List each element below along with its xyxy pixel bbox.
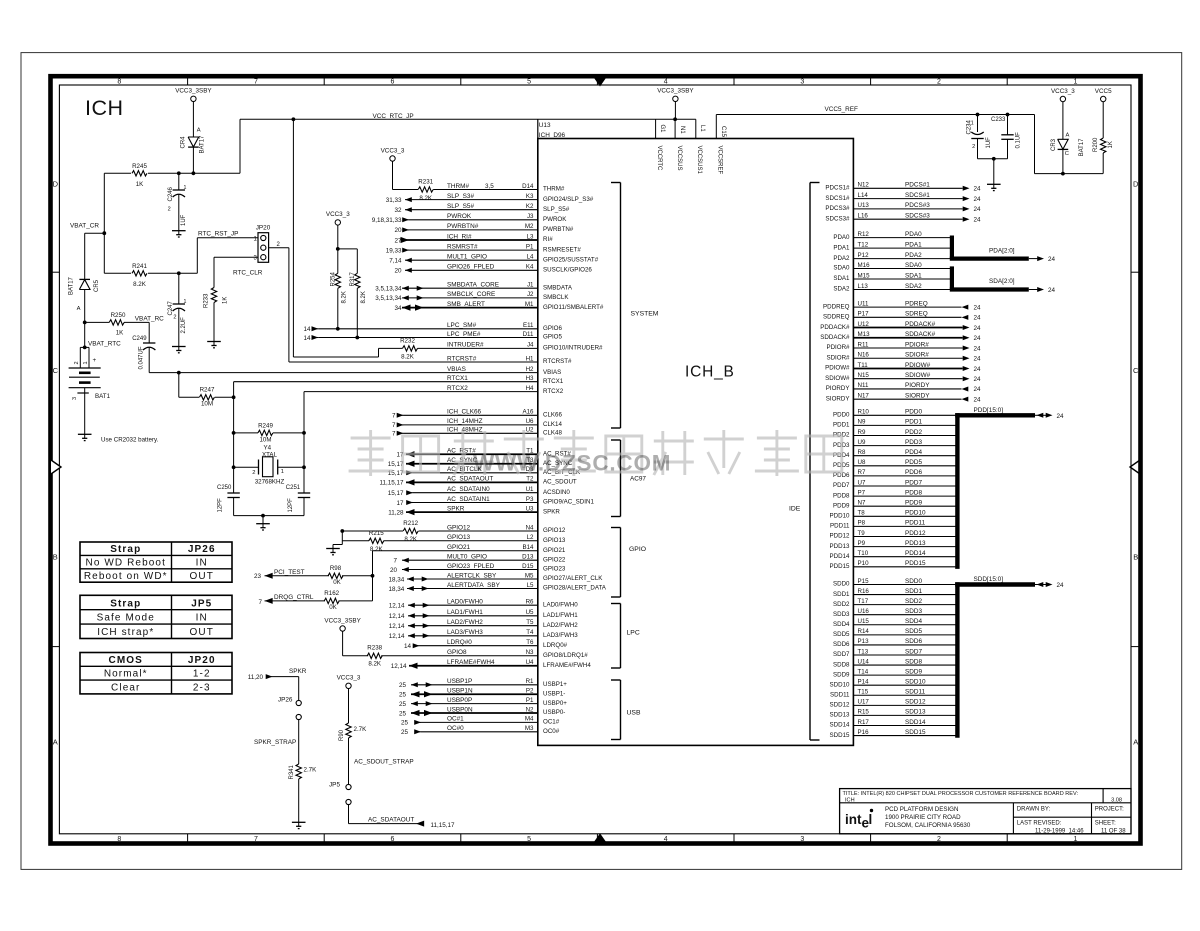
svg-text:PDD15: PDD15 bbox=[905, 560, 926, 567]
svg-text:SDD3: SDD3 bbox=[905, 608, 922, 615]
svg-text:RTC_RST_JP: RTC_RST_JP bbox=[198, 231, 238, 238]
svg-text:N1: N1 bbox=[679, 126, 685, 134]
svg-text:PWRBTN#: PWRBTN# bbox=[447, 223, 479, 230]
ground below C234 C233 bbox=[987, 183, 1001, 185]
svg-text:PDREQ: PDREQ bbox=[905, 300, 928, 307]
wire JP20 pin2 to RTCRST# bbox=[269, 247, 289, 249]
svg-text:JP5: JP5 bbox=[329, 781, 340, 788]
svg-text:PDD[15:0]: PDD[15:0] bbox=[974, 407, 1004, 414]
svg-text:3,5: 3,5 bbox=[485, 183, 494, 190]
group bracket GPIO bbox=[620, 528, 622, 598]
wire SDD14 (pin R17) bbox=[830, 719, 956, 729]
svg-text:A: A bbox=[77, 306, 81, 312]
svg-text:ICH: ICH bbox=[85, 96, 124, 120]
svg-text:P1: P1 bbox=[526, 243, 534, 250]
svg-text:PDD1: PDD1 bbox=[905, 419, 922, 426]
svg-text:AC_SDATAOUT: AC_SDATAOUT bbox=[447, 476, 493, 483]
svg-text:2: 2 bbox=[937, 79, 941, 86]
svg-text:SIORDY: SIORDY bbox=[905, 392, 930, 399]
svg-text:SDA2: SDA2 bbox=[833, 286, 850, 293]
svg-text:JP20: JP20 bbox=[188, 655, 216, 666]
svg-text:SDD8: SDD8 bbox=[905, 658, 922, 665]
wire OC#0 (pin M3) bbox=[401, 725, 560, 736]
svg-text:N16: N16 bbox=[858, 352, 870, 359]
svg-text:LAD1/FWH1: LAD1/FWH1 bbox=[543, 612, 578, 619]
svg-text:BAT1: BAT1 bbox=[95, 393, 111, 400]
svg-text:L4: L4 bbox=[527, 254, 534, 261]
svg-text:N17: N17 bbox=[858, 392, 870, 399]
svg-text:GPIO21: GPIO21 bbox=[543, 547, 566, 554]
svg-text:19,33: 19,33 bbox=[386, 247, 402, 254]
wire LDRQ#0 (pin T6) bbox=[404, 639, 568, 650]
svg-text:1UF: 1UF bbox=[986, 137, 992, 149]
junction R249 right bbox=[302, 431, 306, 435]
bus SDA[2:0] bbox=[950, 266, 1056, 294]
svg-text:GPIO27/ALERT_CLK: GPIO27/ALERT_CLK bbox=[543, 575, 603, 582]
wire SDD1 (pin R16) bbox=[833, 588, 956, 598]
wire SMB_ALERT (pin M1) bbox=[394, 301, 603, 312]
svg-text:R215: R215 bbox=[369, 530, 384, 537]
wire AC_SDATAOUT (pin T2) bbox=[379, 476, 576, 487]
wire PCI_TEST with resistor R98 bbox=[254, 551, 373, 601]
svg-text:N15: N15 bbox=[858, 372, 870, 379]
svg-text:1K: 1K bbox=[223, 297, 229, 304]
junction VBIAS bbox=[177, 371, 181, 375]
svg-text:PDD14: PDD14 bbox=[905, 550, 926, 557]
svg-text:A: A bbox=[53, 738, 58, 747]
junction C246 bbox=[177, 171, 181, 175]
svg-text:AC97: AC97 bbox=[630, 476, 646, 483]
svg-text:U5: U5 bbox=[526, 609, 534, 616]
wire SDD3 (pin U16) bbox=[833, 608, 956, 618]
svg-text:24: 24 bbox=[974, 356, 982, 363]
svg-text:PDD7: PDD7 bbox=[833, 482, 850, 489]
svg-text:15,17: 15,17 bbox=[388, 490, 404, 497]
wire SDD4 (pin U15) bbox=[833, 618, 956, 628]
wire PDD5 (pin U8) bbox=[833, 459, 956, 469]
svg-text:8: 8 bbox=[117, 79, 121, 86]
wire LPC_SM# (pin E11) bbox=[303, 322, 562, 333]
svg-text:2: 2 bbox=[74, 361, 80, 364]
wire PDD12 (pin T9) bbox=[830, 530, 956, 540]
svg-text:8: 8 bbox=[117, 836, 121, 843]
svg-text:RTCX2: RTCX2 bbox=[543, 388, 564, 395]
svg-text:T10: T10 bbox=[858, 550, 869, 557]
svg-text:OC1#: OC1# bbox=[543, 719, 560, 726]
svg-text:3,5,13,34: 3,5,13,34 bbox=[375, 286, 402, 293]
svg-text:SDIOR#: SDIOR# bbox=[905, 352, 929, 359]
svg-text:T15: T15 bbox=[858, 689, 869, 696]
svg-text:A16: A16 bbox=[522, 409, 534, 416]
svg-text:U7: U7 bbox=[858, 479, 866, 486]
svg-text:PDD10: PDD10 bbox=[830, 513, 851, 520]
svg-text:AC_SDATAIN1: AC_SDATAIN1 bbox=[447, 496, 490, 503]
svg-text:N9: N9 bbox=[858, 419, 866, 426]
svg-text:SDDACK#: SDDACK# bbox=[820, 334, 850, 341]
svg-text:1: 1 bbox=[83, 361, 89, 364]
svg-text:RTCX1: RTCX1 bbox=[447, 375, 468, 382]
svg-text:H2: H2 bbox=[526, 366, 534, 373]
svg-text:A: A bbox=[1066, 133, 1070, 139]
svg-text:PDD3: PDD3 bbox=[905, 439, 922, 446]
svg-text:SLP_S5#: SLP_S5# bbox=[447, 203, 474, 210]
svg-text:R14: R14 bbox=[858, 628, 870, 635]
wire PDA1 (pin T12) bbox=[833, 241, 950, 251]
resistor R249 10M bbox=[234, 432, 258, 434]
svg-text:GPIO8: GPIO8 bbox=[447, 649, 467, 656]
svg-text:GPIO8/LDRQ1#: GPIO8/LDRQ1# bbox=[543, 652, 588, 659]
wire left vertical VBAT_CR bbox=[103, 173, 105, 273]
svg-text:ICH_B: ICH_B bbox=[685, 364, 735, 381]
svg-text:CLK48: CLK48 bbox=[543, 430, 562, 437]
svg-text:U13: U13 bbox=[539, 122, 551, 129]
bus PDD[15:0] vertical bar bbox=[955, 413, 959, 569]
svg-text:20: 20 bbox=[394, 227, 402, 234]
title block text bbox=[843, 791, 1127, 834]
svg-text:7: 7 bbox=[392, 422, 396, 429]
svg-text:LAD0/FWH0: LAD0/FWH0 bbox=[447, 599, 483, 606]
svg-text:5: 5 bbox=[527, 79, 531, 86]
svg-text:7,14: 7,14 bbox=[389, 258, 402, 265]
wire VCC5_REF to caps bbox=[1034, 115, 1036, 174]
svg-text:12PF: 12PF bbox=[288, 498, 294, 513]
wire VBIAS branch R247 bbox=[178, 373, 180, 398]
wire PDCS#1 (pin N12) bbox=[825, 182, 981, 193]
svg-text:3,5,13,34: 3,5,13,34 bbox=[375, 295, 402, 302]
wire PDD2 (pin R9) bbox=[833, 429, 956, 439]
group bracket SYSTEM bbox=[620, 183, 622, 429]
svg-text:8.2K: 8.2K bbox=[133, 281, 147, 288]
wire PDD7 (pin U7) bbox=[833, 479, 956, 489]
svg-text:P3: P3 bbox=[526, 496, 534, 503]
svg-text:OC0#: OC0# bbox=[543, 728, 560, 735]
svg-text:A: A bbox=[197, 128, 201, 134]
svg-text:SMBDATA: SMBDATA bbox=[543, 284, 573, 291]
svg-text:C247: C247 bbox=[168, 300, 174, 315]
wire LAD0/FWH0 (pin R6) bbox=[389, 599, 579, 610]
IC notch outline at top-left bbox=[537, 119, 539, 138]
svg-text:U14: U14 bbox=[858, 658, 870, 665]
svg-text:SDD13: SDD13 bbox=[830, 712, 851, 719]
svg-text:PDIOW#: PDIOW# bbox=[825, 365, 850, 372]
svg-text:R98: R98 bbox=[330, 565, 342, 572]
wire RTCX1 column bbox=[233, 382, 235, 493]
svg-text:AC_SDATAOUT: AC_SDATAOUT bbox=[368, 817, 414, 824]
ground below BAT1 bbox=[78, 433, 92, 435]
wire USBP0N (pin N2) bbox=[399, 706, 565, 717]
svg-text:SDD0: SDD0 bbox=[905, 578, 922, 585]
svg-text:LAD0/FWH0: LAD0/FWH0 bbox=[543, 601, 578, 608]
svg-text:SDA2: SDA2 bbox=[905, 283, 922, 290]
svg-text:ALERTDATA_SBY: ALERTDATA_SBY bbox=[447, 582, 501, 589]
svg-text:8.2K: 8.2K bbox=[368, 661, 382, 668]
wire VBIAS (pin H2) bbox=[149, 366, 561, 376]
svg-text:L5: L5 bbox=[527, 582, 534, 589]
svg-text:K2: K2 bbox=[526, 203, 534, 210]
svg-text:D14: D14 bbox=[522, 183, 534, 190]
ground below R341 bbox=[292, 821, 306, 823]
svg-text:SDD2: SDD2 bbox=[833, 601, 850, 608]
svg-text:USBP0-: USBP0- bbox=[543, 709, 565, 716]
wire LAD3/FWH3 (pin T4) bbox=[389, 629, 579, 640]
svg-text:SDD12: SDD12 bbox=[830, 702, 851, 709]
svg-text:N12: N12 bbox=[858, 182, 870, 189]
wire LAD1/FWH1 (pin U5) bbox=[389, 609, 579, 620]
svg-text:R12: R12 bbox=[858, 231, 870, 238]
svg-text:VCCSREF: VCCSREF bbox=[717, 146, 723, 175]
svg-text:VBIAS: VBIAS bbox=[543, 369, 561, 376]
wire PDIOW# (pin T11) bbox=[825, 362, 981, 373]
wire AC_BITCLK (pin D3) bbox=[388, 466, 581, 477]
svg-text:USBP1+: USBP1+ bbox=[543, 681, 567, 688]
svg-text:PDD12: PDD12 bbox=[905, 530, 926, 537]
svg-text:24: 24 bbox=[974, 345, 982, 352]
wire SDD8 (pin U14) bbox=[833, 658, 956, 668]
svg-text:LPC_PME#: LPC_PME# bbox=[447, 331, 481, 338]
wire SDD5 (pin R14) bbox=[833, 628, 956, 638]
svg-text:SDDREQ: SDDREQ bbox=[823, 314, 850, 321]
svg-text:AC_SDOUT_STRAP: AC_SDOUT_STRAP bbox=[354, 759, 414, 766]
svg-text:1900 PRAIRIE CITY ROAD: 1900 PRAIRIE CITY ROAD bbox=[885, 814, 961, 821]
svg-text:ICH_D96: ICH_D96 bbox=[539, 132, 566, 139]
svg-text:1UF: 1UF bbox=[181, 214, 187, 226]
svg-text:PDD11: PDD11 bbox=[830, 523, 850, 530]
svg-text:11,15,17: 11,15,17 bbox=[431, 822, 456, 829]
svg-text:R1: R1 bbox=[526, 678, 534, 685]
svg-text:SDD12: SDD12 bbox=[905, 699, 926, 706]
svg-text:K4: K4 bbox=[526, 264, 534, 271]
svg-text:P12: P12 bbox=[858, 252, 870, 259]
svg-text:LPC_SM#: LPC_SM# bbox=[447, 322, 477, 329]
border column tick marks bbox=[51, 76, 1141, 843]
svg-text:SDD1: SDD1 bbox=[833, 591, 850, 598]
svg-text:24: 24 bbox=[974, 335, 982, 342]
svg-text:H1: H1 bbox=[526, 355, 534, 362]
jumper JP26 bbox=[278, 696, 301, 719]
svg-text:PDCS1#: PDCS1# bbox=[825, 185, 850, 192]
svg-text:LAD3/FWH3: LAD3/FWH3 bbox=[447, 629, 483, 636]
svg-text:SDCS3#: SDCS3# bbox=[825, 215, 850, 222]
svg-text:SDCS1#: SDCS1# bbox=[825, 195, 850, 202]
svg-text:GPIO12: GPIO12 bbox=[447, 524, 471, 531]
svg-text:D: D bbox=[1133, 180, 1139, 189]
wire AC_SDATAIN0 (pin U1) bbox=[388, 486, 571, 497]
svg-text:SMBCLK_CORE: SMBCLK_CORE bbox=[447, 291, 495, 298]
svg-text:C251: C251 bbox=[286, 485, 301, 491]
svg-text:24: 24 bbox=[974, 217, 982, 224]
wire GPIO13 (pin L2) with resistor R215 bbox=[342, 530, 566, 553]
resistor R254 8.2K bbox=[337, 249, 339, 273]
svg-text:12PF: 12PF bbox=[218, 498, 224, 513]
junction R254 top bbox=[336, 247, 340, 251]
table Strap JP26 bbox=[80, 542, 232, 582]
svg-text:TITLE: INTEL(R) 820 CHIPSET DU: TITLE: INTEL(R) 820 CHIPSET DUAL PROCESS… bbox=[843, 791, 1079, 797]
wire JP20 pin3 to R233 bbox=[214, 256, 258, 258]
svg-text:5: 5 bbox=[527, 836, 531, 843]
wire PDD6 (pin R7) bbox=[833, 469, 956, 479]
pin G1 stub VCCRTC bbox=[655, 119, 657, 138]
svg-text:SDD13: SDD13 bbox=[905, 709, 926, 716]
svg-text:PDD10: PDD10 bbox=[905, 510, 926, 517]
svg-text:1: 1 bbox=[1074, 836, 1078, 843]
junction C233 bbox=[1006, 113, 1010, 117]
svg-text:LFRAME#/FWH4: LFRAME#/FWH4 bbox=[543, 662, 591, 669]
svg-text:SHEET:: SHEET: bbox=[1095, 821, 1116, 827]
svg-text:0.1UF: 0.1UF bbox=[1016, 132, 1022, 149]
wire PDD9 (pin N7) bbox=[833, 500, 956, 510]
svg-text:32: 32 bbox=[394, 207, 402, 214]
svg-text:LAD2/FWH2: LAD2/FWH2 bbox=[543, 622, 578, 629]
svg-text:VCC3_3: VCC3_3 bbox=[337, 675, 361, 682]
ground for R212 R215 bbox=[341, 531, 343, 545]
junction crystal pin2 bbox=[232, 465, 236, 469]
svg-text:VCC3_3: VCC3_3 bbox=[381, 147, 405, 154]
svg-text:3: 3 bbox=[72, 397, 78, 400]
svg-text:24: 24 bbox=[974, 206, 982, 213]
wire GPIO8 (pin N3) with resistor R238 bbox=[367, 645, 588, 668]
svg-text:VCC3_3SBY: VCC3_3SBY bbox=[175, 88, 212, 95]
junction CR4 bottom bbox=[192, 171, 196, 175]
junction C247 bbox=[177, 271, 181, 275]
svg-text:P9: P9 bbox=[858, 540, 866, 547]
svg-text:PDD0: PDD0 bbox=[905, 409, 922, 416]
net VCC_RTC_JP wire bbox=[239, 119, 241, 173]
wire SDIOR# (pin N16) bbox=[826, 352, 981, 363]
svg-text:IDE: IDE bbox=[789, 506, 801, 513]
svg-text:SPKR_STRAP: SPKR_STRAP bbox=[254, 739, 296, 746]
svg-text:RTCRST#: RTCRST# bbox=[543, 358, 572, 365]
group bracket USB bbox=[620, 680, 622, 740]
svg-text:6: 6 bbox=[391, 836, 395, 843]
svg-text:P2: P2 bbox=[526, 688, 534, 695]
svg-text:U12: U12 bbox=[858, 321, 870, 328]
svg-text:1: 1 bbox=[184, 185, 187, 191]
svg-text:SDD6: SDD6 bbox=[905, 638, 922, 645]
svg-text:11,15,17: 11,15,17 bbox=[379, 480, 404, 487]
svg-text:2: 2 bbox=[972, 144, 975, 150]
svg-text:C246: C246 bbox=[168, 186, 174, 201]
svg-text:GPIO24/SLP_S3#: GPIO24/SLP_S3# bbox=[543, 196, 594, 203]
svg-text:P7: P7 bbox=[858, 489, 866, 496]
svg-text:IN: IN bbox=[196, 613, 208, 624]
svg-text:R10: R10 bbox=[858, 409, 870, 416]
wire LFRAME#FWH4 (pin U4) bbox=[391, 659, 592, 670]
svg-text:R250: R250 bbox=[111, 312, 126, 319]
wire R245 row bbox=[104, 172, 131, 174]
ground below R233 bbox=[207, 341, 221, 343]
diode CR3 BAT17 bbox=[1051, 133, 1085, 174]
svg-text:USBP1P: USBP1P bbox=[447, 678, 472, 685]
svg-text:C: C bbox=[53, 366, 59, 375]
svg-text:ICH_48MHZ: ICH_48MHZ bbox=[447, 427, 483, 434]
svg-text:18,34: 18,34 bbox=[389, 576, 405, 583]
resistor R200 1K bbox=[1093, 137, 1114, 174]
svg-text:SDD11: SDD11 bbox=[830, 691, 850, 698]
svg-text:20: 20 bbox=[394, 268, 402, 275]
svg-text:P10: P10 bbox=[858, 560, 870, 567]
svg-text:P15: P15 bbox=[858, 578, 870, 585]
svg-text:PDCS3#: PDCS3# bbox=[825, 205, 850, 212]
svg-text:AC_SDOUT: AC_SDOUT bbox=[543, 479, 577, 486]
wire PDA2 (pin P12) bbox=[833, 252, 950, 262]
svg-text:RSMRST#: RSMRST# bbox=[447, 243, 478, 250]
svg-text:PDA0: PDA0 bbox=[905, 231, 922, 238]
svg-text:JP26: JP26 bbox=[188, 544, 216, 555]
svg-text:M4: M4 bbox=[525, 716, 534, 723]
svg-text:USBP0N: USBP0N bbox=[447, 706, 473, 713]
wire GPIO12 (pin N4) with resistor R212 bbox=[342, 520, 566, 543]
bus SDD[15:0] label and arrow bbox=[955, 576, 1064, 589]
svg-text:PDD15: PDD15 bbox=[830, 563, 851, 570]
svg-text:GPIO6: GPIO6 bbox=[543, 325, 562, 332]
wire SLP_S5# (pin K2) bbox=[394, 203, 569, 214]
svg-text:PDA1: PDA1 bbox=[833, 244, 850, 251]
svg-text:SDD15: SDD15 bbox=[830, 732, 851, 739]
svg-text:M5: M5 bbox=[525, 572, 534, 579]
svg-text:SDD3: SDD3 bbox=[833, 611, 850, 618]
wire RTCRST# (pin H1) bbox=[289, 355, 572, 365]
wire PDD10 (pin T8) bbox=[830, 510, 956, 520]
svg-text:9,18,31,33: 9,18,31,33 bbox=[372, 217, 402, 224]
svg-text:GPIO23: GPIO23 bbox=[543, 566, 566, 573]
svg-text:MULT0_GPIO: MULT0_GPIO bbox=[447, 554, 487, 561]
svg-text:WWW.DZSC.COM: WWW.DZSC.COM bbox=[473, 451, 671, 476]
svg-text:10M: 10M bbox=[259, 437, 271, 444]
svg-text:PDD2: PDD2 bbox=[905, 429, 922, 436]
junction GPIO21 R98 bbox=[371, 574, 375, 578]
svg-text:VCC5: VCC5 bbox=[1095, 88, 1112, 95]
power VCC3_3 for R231 bbox=[390, 156, 395, 161]
diode CR4 BAT17 bbox=[180, 128, 205, 174]
wire PDD15 (pin P10) bbox=[830, 560, 956, 570]
svg-text:T4: T4 bbox=[526, 629, 534, 636]
svg-text:N2: N2 bbox=[526, 706, 534, 713]
svg-text:12,14: 12,14 bbox=[389, 623, 405, 630]
wire THRM# (pin D14) bbox=[433, 183, 565, 193]
svg-text:l: l bbox=[869, 812, 873, 827]
wire LPC_PME# (pin D11) bbox=[303, 331, 562, 342]
pin N1 stub VCCSUS bbox=[656, 118, 696, 120]
svg-text:SDD6: SDD6 bbox=[833, 641, 850, 648]
svg-text:OUT: OUT bbox=[190, 627, 214, 638]
svg-text:4: 4 bbox=[664, 836, 668, 843]
svg-text:PWROK: PWROK bbox=[543, 216, 567, 223]
wire AC_SDATAIN1 (pin P3) bbox=[396, 496, 594, 507]
svg-text:R241: R241 bbox=[132, 263, 147, 270]
svg-text:RTCX2: RTCX2 bbox=[447, 385, 468, 392]
ground below C246 bbox=[172, 230, 186, 232]
svg-text:N3: N3 bbox=[526, 649, 534, 656]
svg-text:D11: D11 bbox=[523, 331, 534, 338]
svg-text:T13: T13 bbox=[858, 648, 869, 655]
wire AC_SYNC (pin T3) bbox=[388, 457, 573, 468]
svg-text:C: C bbox=[1133, 366, 1139, 375]
wire MULT1_GPIO (pin L4) bbox=[389, 254, 598, 265]
table CMOS JP20 bbox=[80, 653, 232, 694]
svg-text:1K: 1K bbox=[136, 181, 144, 188]
svg-text:24: 24 bbox=[974, 304, 982, 311]
svg-text:8.2K: 8.2K bbox=[419, 195, 433, 202]
wire SDDACK# (pin M13) bbox=[820, 331, 981, 342]
jumper JP5 bbox=[329, 781, 351, 804]
svg-text:MULT1_GPIO: MULT1_GPIO bbox=[447, 254, 487, 261]
battery BAT1 bbox=[69, 347, 111, 434]
wire PDD4 (pin R8) bbox=[833, 449, 956, 459]
svg-text:PDIOW#: PDIOW# bbox=[905, 362, 931, 369]
svg-text:L2: L2 bbox=[527, 534, 534, 541]
svg-text:P8: P8 bbox=[858, 520, 866, 527]
svg-text:1: 1 bbox=[971, 121, 974, 127]
